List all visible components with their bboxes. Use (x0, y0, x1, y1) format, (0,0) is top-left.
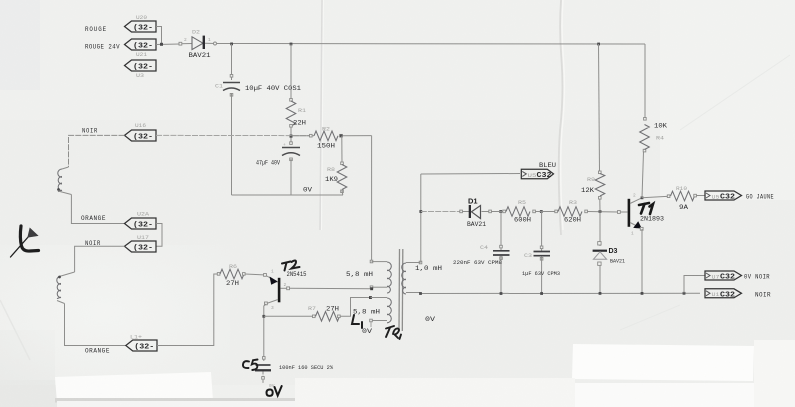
transistor T2 2N5415 (265, 269, 307, 312)
wire C5 branch (263, 359, 265, 361)
wire D1 to R5 (492, 211, 504, 213)
wire J6 to L3 (75, 246, 125, 272)
wire R1 branch (290, 44, 292, 101)
wire R9 branch (599, 44, 600, 172)
wire 0V rail right (421, 292, 701, 294)
wire R5 to R3 (535, 211, 556, 213)
wire T1 collector up to R4 (642, 152, 644, 198)
handwritten L1 (352, 315, 362, 328)
wire J7 to R6 (157, 274, 218, 346)
resistor R5 600H (503, 200, 536, 224)
capacitor C3 1uF (522, 212, 560, 294)
connector J5 ORANGE (125, 212, 157, 230)
resistor R3 620H (555, 200, 588, 224)
wire R2 row (291, 135, 314, 137)
wire C1 branch (231, 44, 233, 80)
node C3 tap (540, 210, 543, 213)
capacitor C6 47uF (256, 142, 300, 167)
capacitor C5 100nF (255, 357, 334, 389)
resistor R10 9A (667, 186, 696, 211)
node base noir junction (290, 135, 293, 138)
wire to R7 (264, 315, 314, 317)
wire C1 to 0V rail (231, 93, 233, 195)
capacitor C4 220nF (453, 212, 510, 294)
resistor R4 10K (640, 118, 667, 152)
wire L2 to ORANGE (71, 195, 124, 224)
handwritten 0V bottom (267, 386, 282, 396)
wire J2 to diode D2 (156, 43, 180, 46)
wire BLEU drop (420, 174, 422, 262)
connector J10 0V NOIR (705, 271, 770, 282)
transformer TR1 core (399, 249, 403, 331)
wire R3 to T1 base (587, 211, 618, 214)
resistor R2 150H (310, 127, 343, 150)
connector J11 NOIR (705, 289, 771, 300)
handwritten T2 (282, 261, 300, 271)
node rail taps (419, 292, 685, 295)
connector J1 ROUGE (125, 15, 157, 33)
node T1 collector junction (641, 196, 644, 199)
wire NOIR row right (156, 134, 309, 136)
wire R10 to J9 (696, 195, 705, 197)
node R1 tap (290, 43, 293, 46)
wire R9 to row (599, 199, 601, 212)
inductor L3 (57, 272, 75, 304)
diode D3 BAV21 (593, 248, 626, 294)
node D3 top (598, 242, 601, 245)
node R8 tap (340, 134, 343, 137)
resistor R6 27H (217, 264, 245, 287)
wire 0V rail left (232, 194, 344, 196)
wire 0V NOIR branch (684, 276, 705, 294)
node base/R7 junction (262, 315, 265, 318)
node D1 row junction (419, 210, 422, 213)
node 24V junction (160, 43, 163, 46)
transformer TR1 secondary 1,0mH (402, 261, 442, 323)
wire 47uF to 0V rail (290, 159, 292, 195)
wire BLEU horizontal (421, 173, 520, 176)
connector J3 spare (125, 60, 157, 79)
wire J1 to node (156, 27, 162, 44)
node R9/D3 junction (599, 210, 602, 213)
wire D1 row (421, 211, 462, 213)
wire R7 to L1 winding (340, 298, 370, 317)
connector J7 ORANGE (126, 335, 157, 352)
wire +24V top rail (216, 43, 645, 46)
connector J2 ROUGE 24V (125, 39, 157, 58)
connector J8 BLEU (521, 162, 556, 180)
wire R8 to 0V rail (341, 191, 344, 196)
inductor L2 (57, 167, 71, 195)
wire R8 branch (341, 136, 343, 165)
node collector junction (370, 287, 373, 290)
wire L3 to ORANGE2 (65, 304, 126, 346)
wire T1 emitter down (641, 229, 643, 294)
wire D3 branch (599, 212, 601, 247)
diode D1 BAV21 (460, 197, 492, 229)
wire R4 top to rail corner (644, 44, 646, 118)
transformer TR1 primary bottom 5,8mH L1 (353, 296, 391, 335)
handwritten T1 (639, 203, 653, 214)
wire R6 to T2 emitter (245, 274, 266, 275)
node C4 tap (499, 210, 502, 213)
node R9 tap (597, 43, 600, 46)
connector J9 GO JAUNE (705, 191, 774, 202)
wire NOIR row (69, 135, 125, 167)
wire J5-J6 bridge (156, 224, 162, 247)
resistor R9 12K (581, 171, 605, 199)
wire T1 collector to R10 (642, 196, 669, 198)
resistor R7 27H (308, 306, 340, 322)
diode D2 BAV21 (179, 30, 217, 60)
wire R1 to noir node (290, 127, 292, 142)
node C1 tap (230, 43, 233, 46)
connector J4 NOIR (125, 123, 157, 142)
transistor T1 2N1893 (618, 193, 665, 237)
handwritten C5 (243, 360, 258, 371)
resistor R8 1K9 (325, 162, 347, 193)
resistor R1 22H (286, 99, 306, 128)
wire T2 base down (264, 304, 266, 359)
handwritten scribble bottom-left (11, 226, 39, 257)
capacitor C1 10uF (215, 75, 301, 97)
wire T2 collector to TR1 (289, 287, 372, 289)
handwritten TR1 (386, 326, 401, 339)
wire R2 to TR1 drop (343, 135, 372, 137)
connector J6 NOIR (125, 235, 157, 252)
transformer TR1 primary top 5,8mH (346, 136, 391, 293)
